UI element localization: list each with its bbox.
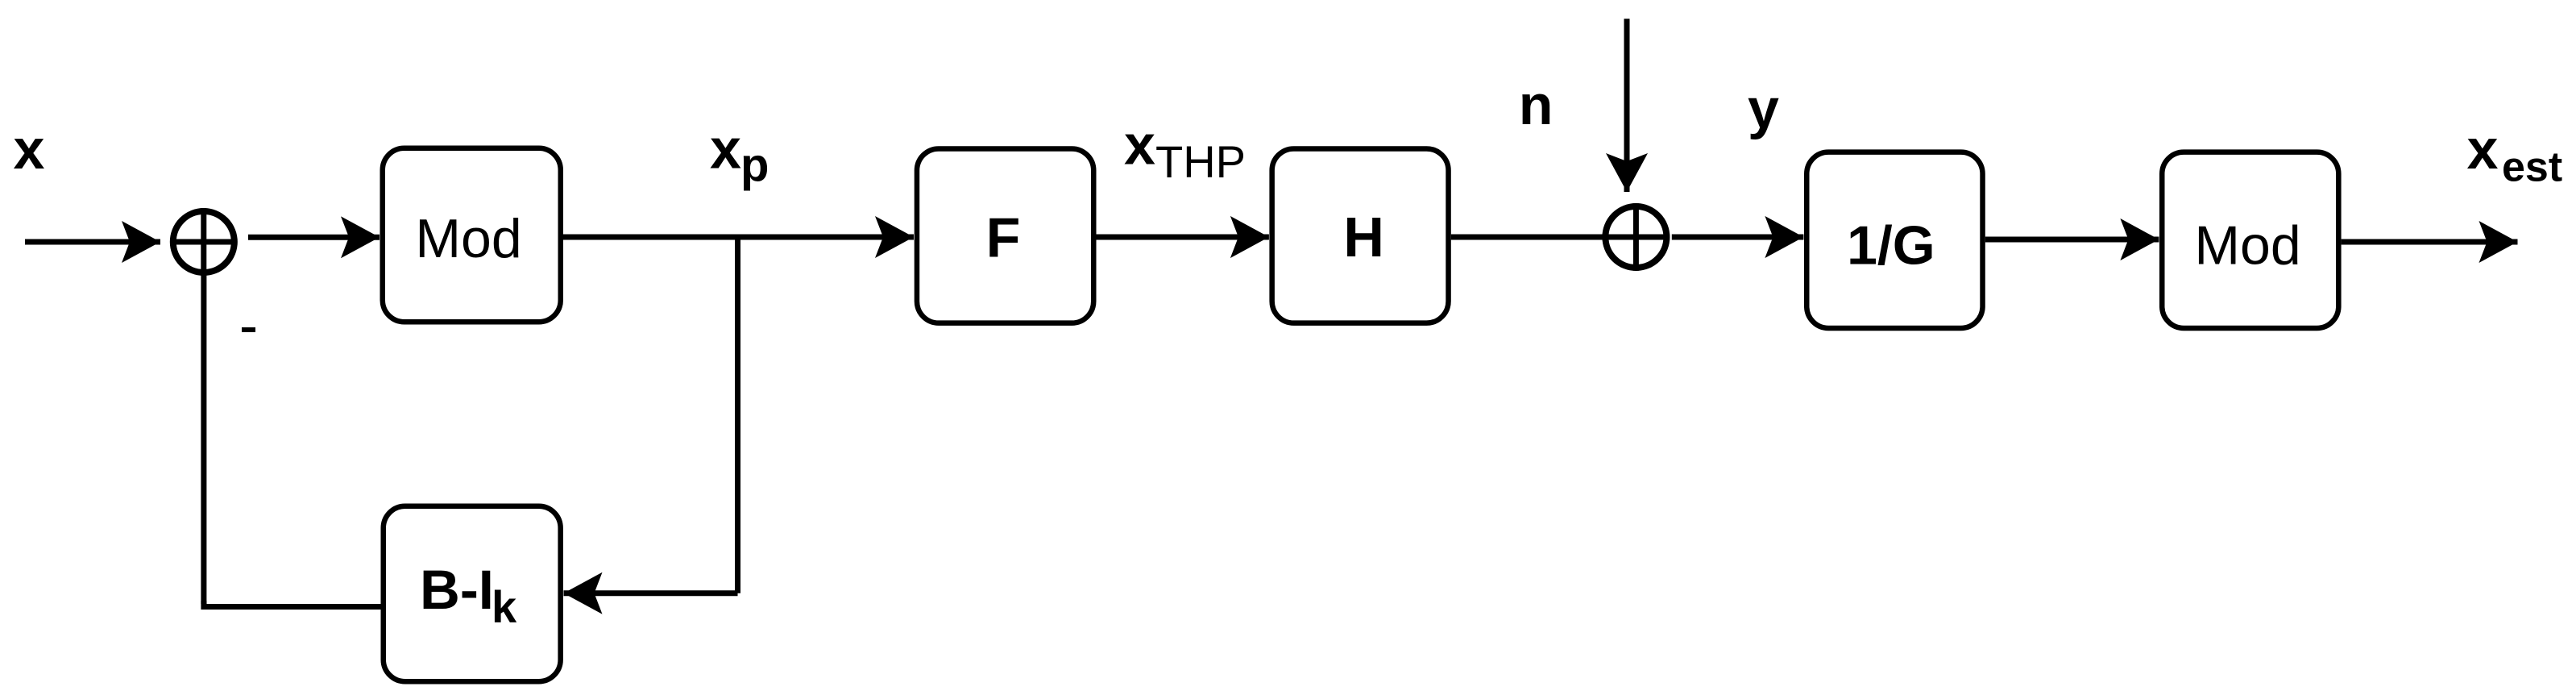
svg-text:F: F xyxy=(986,206,1021,268)
wire 1/G to Mod2 xyxy=(1985,237,2159,243)
svg-text:H: H xyxy=(1343,206,1384,268)
svg-text:Mod: Mod xyxy=(2194,214,2300,276)
wire branch into B-Ik (arrow left) xyxy=(564,590,738,596)
wire S1 to Mod1 xyxy=(248,235,380,240)
svg-text:k: k xyxy=(492,581,517,632)
svg-text:x: x xyxy=(2467,118,2499,181)
svg-text:1/G: 1/G xyxy=(1847,214,1935,276)
block F (feedforward filter) xyxy=(917,148,1093,323)
svg-text:x: x xyxy=(710,118,741,181)
block Mod2 (demodulo) xyxy=(2162,152,2338,328)
summing junction S1 xyxy=(170,208,238,276)
wire input arrow into summer S1 xyxy=(25,239,160,245)
svg-text:p: p xyxy=(740,139,769,192)
svg-text:y: y xyxy=(1748,77,1779,140)
wire feedback S1 down leg xyxy=(201,273,206,604)
svg-text:B-I: B-I xyxy=(420,559,494,621)
svg-text:n: n xyxy=(1519,73,1553,136)
wire branch down from xp node xyxy=(735,235,740,593)
block 1/G (gain) xyxy=(1807,152,1982,328)
svg-text:est: est xyxy=(2502,144,2562,191)
wire Mod1 to F with branch junction xyxy=(563,235,914,240)
wire H to summer S2 xyxy=(1451,235,1603,240)
wire noise arrow down into S2 xyxy=(1624,19,1630,192)
wire output arrow from Mod2 xyxy=(2342,239,2518,245)
svg-text:x: x xyxy=(14,118,45,181)
svg-text:x: x xyxy=(1124,113,1155,176)
summing junction S2 xyxy=(1603,203,1670,271)
wire S2 to 1/G xyxy=(1672,235,1804,240)
block Mod1 (modulo) xyxy=(383,148,561,323)
block H (channel) xyxy=(1272,148,1449,323)
block B-Ik (feedback filter) xyxy=(384,506,561,682)
svg-text:THP: THP xyxy=(1155,136,1246,187)
minus sign label at S1 xyxy=(242,327,255,332)
wire feedback bottom horizontal to B-Ik xyxy=(204,601,381,607)
wire F to H xyxy=(1097,235,1269,240)
svg-text:Mod: Mod xyxy=(415,208,521,269)
